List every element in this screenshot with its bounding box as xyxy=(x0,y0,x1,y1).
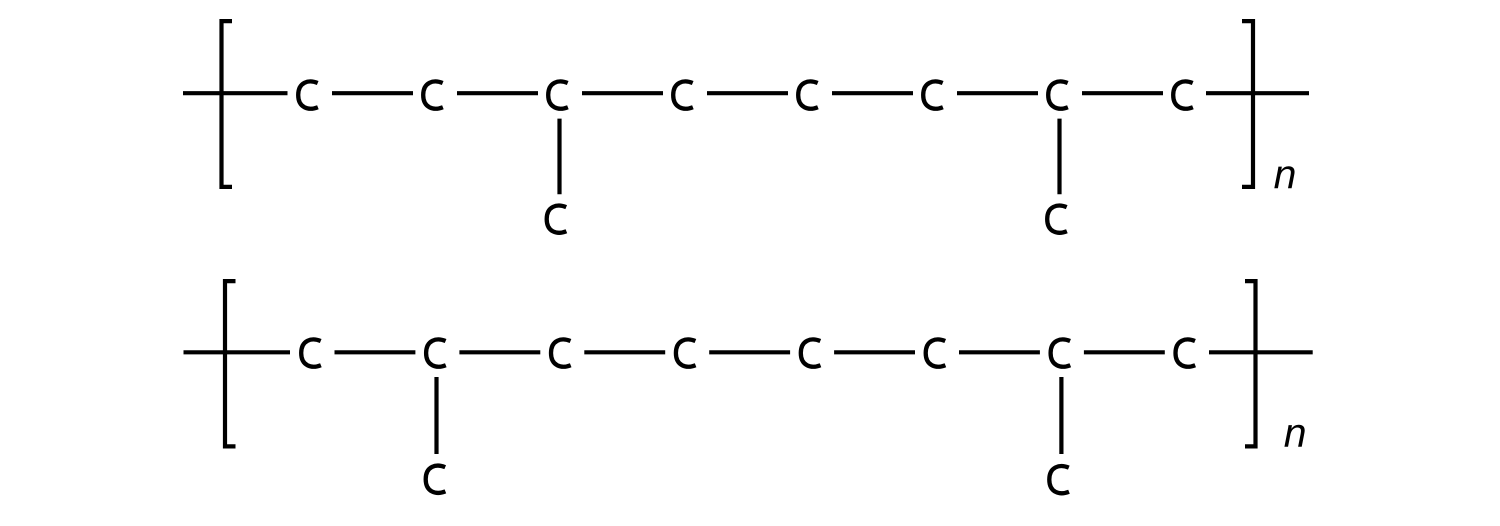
atom C3 row1 xyxy=(548,81,568,108)
atom C6 row2 xyxy=(926,339,946,366)
wire: row1 leading bond xyxy=(183,91,288,95)
wire: row2 bond C3-C4 xyxy=(584,350,665,354)
atom C4 row1 xyxy=(673,81,693,108)
wire: row2 leading bond xyxy=(184,350,291,354)
atom C1 row1 xyxy=(298,81,318,108)
wire: row2 bond C7-C8 xyxy=(1084,350,1165,354)
atom C6 row1 xyxy=(923,81,943,108)
wire: row2 vertical bond C2-branch xyxy=(434,377,438,454)
atom C5 row2 xyxy=(801,339,821,366)
atom branch C below C7 row1 xyxy=(1047,206,1067,233)
wire: row1 vertical bond C7-branch xyxy=(1057,119,1061,195)
wire: row1 bond C7-C8 xyxy=(1082,91,1163,95)
atom C8 row1 xyxy=(1173,81,1193,108)
atom C4 row2 xyxy=(676,339,696,366)
wire: row1 bond C2-C3 xyxy=(457,91,538,95)
wire: row2 bond C5-C6 xyxy=(834,350,915,354)
atom C8 row2 xyxy=(1176,339,1196,366)
atom branch C below C7 row2 xyxy=(1049,466,1069,493)
wire: row2 bond C1-C2 xyxy=(335,350,416,354)
wire: row2 vertical bond C7-branch xyxy=(1059,377,1063,454)
wire: row1 bond C1-C2 xyxy=(332,91,413,95)
wire: row2 trailing bond xyxy=(1209,350,1313,354)
atom branch C below C2 row2 xyxy=(426,466,446,493)
atom C3 row2 xyxy=(551,339,571,366)
wire: row1 trailing bond xyxy=(1206,91,1309,95)
wire: row2 bond C6-C7 xyxy=(959,350,1040,354)
right bracket row2 xyxy=(1245,281,1256,446)
wire: row1 bond C5-C6 xyxy=(832,91,913,95)
right bracket row1 xyxy=(1242,21,1253,187)
atom C1 row2 xyxy=(301,339,321,366)
atom branch C below C3 row1 xyxy=(547,206,567,233)
wire: row1 bond C4-C5 xyxy=(707,91,788,95)
atom C2 row2 xyxy=(426,339,446,366)
svg-text:n: n xyxy=(1274,151,1297,197)
left bracket row2 xyxy=(225,281,236,446)
wire: row1 vertical bond C3-branch xyxy=(557,119,561,195)
wire: row1 bond C3-C4 xyxy=(582,91,663,95)
atom C2 row1 xyxy=(423,81,443,108)
wire: row1 bond C6-C7 xyxy=(957,91,1038,95)
wire: row2 bond C2-C3 xyxy=(459,350,540,354)
atom C7 row2 xyxy=(1051,339,1071,366)
wire: row2 bond C4-C5 xyxy=(709,350,790,354)
svg-text:n: n xyxy=(1284,410,1307,456)
atom C7 row1 xyxy=(1048,81,1068,108)
left bracket row1 xyxy=(222,21,233,187)
atom C5 row1 xyxy=(798,81,818,108)
